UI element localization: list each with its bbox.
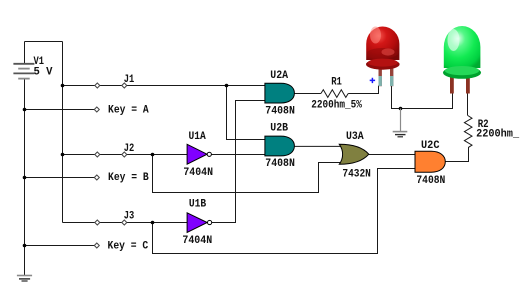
svg-text:Key = C: Key = C xyxy=(108,240,149,252)
svg-text:2200hm_5%: 2200hm_5% xyxy=(311,99,362,111)
svg-text:7408N: 7408N xyxy=(265,106,295,118)
svg-text:R1: R1 xyxy=(331,77,342,89)
svg-text:J3: J3 xyxy=(124,211,135,223)
svg-text:7404N: 7404N xyxy=(182,235,212,247)
svg-text:2200hm_: 2200hm_ xyxy=(476,128,519,140)
svg-text:7408N: 7408N xyxy=(416,175,445,187)
svg-text:J2: J2 xyxy=(124,143,135,155)
svg-text:U1A: U1A xyxy=(189,131,207,143)
svg-text:5 V: 5 V xyxy=(34,66,53,78)
svg-text:J1: J1 xyxy=(124,74,135,86)
svg-text:U2C: U2C xyxy=(421,140,440,152)
svg-text:7404N: 7404N xyxy=(183,167,213,179)
svg-text:U3A: U3A xyxy=(346,131,364,143)
svg-text:7408N: 7408N xyxy=(265,158,295,170)
svg-text:U1B: U1B xyxy=(189,199,207,211)
svg-text:Key = B: Key = B xyxy=(108,172,149,184)
svg-text:7432N: 7432N xyxy=(342,169,371,181)
svg-text:U2B: U2B xyxy=(270,122,288,134)
svg-text:U2A: U2A xyxy=(270,70,288,82)
svg-text:Key = A: Key = A xyxy=(108,104,149,116)
